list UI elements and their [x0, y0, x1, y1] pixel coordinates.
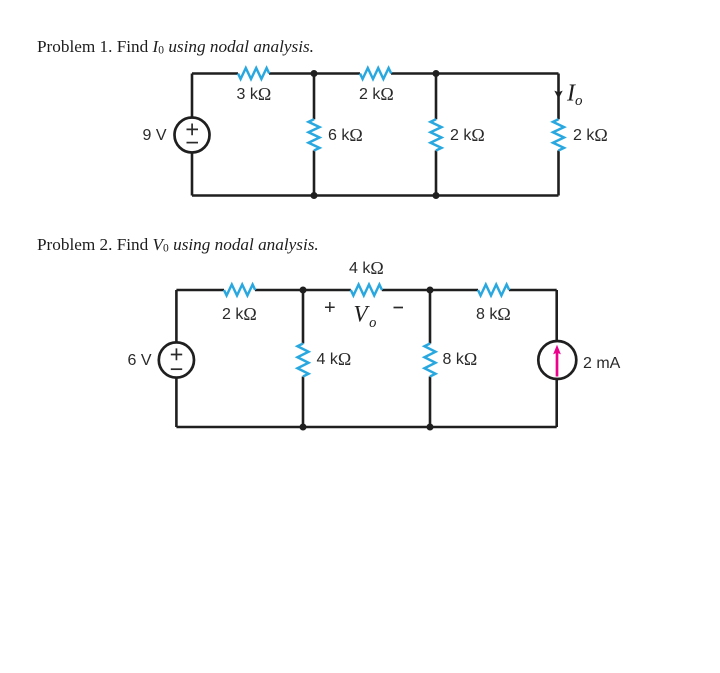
problem 1 title text — [37, 38, 314, 60]
svg-text:8 kΩ: 8 kΩ — [476, 304, 511, 324]
resistor R3 6k vertical zigzag — [309, 119, 320, 150]
wire vertical at node 4 above 8k — [429, 290, 432, 344]
svg-text:6 kΩ: 6 kΩ — [328, 125, 363, 145]
wire vertical at node 3 above 4k — [302, 290, 305, 344]
node 2 bottom junction dot — [433, 192, 440, 199]
wire vertical at node 3 below 4k — [302, 377, 305, 428]
resistor R1 3k horizontal zigzag — [238, 68, 269, 79]
resistor R8 8k horizontal zigzag — [478, 285, 509, 296]
svg-text:4 kΩ: 4 kΩ — [317, 349, 352, 369]
resistor R9 4k vertical zigzag — [298, 344, 309, 377]
svg-text:3 kΩ: 3 kΩ — [237, 84, 272, 104]
wire top between R8 and right corner P2 — [509, 289, 557, 292]
voltage source V2 plus sign — [171, 348, 182, 360]
node 1 bottom junction dot — [311, 192, 318, 199]
resistor R4 2k vertical zigzag — [431, 119, 442, 150]
voltage source V1 minus sign — [187, 142, 199, 144]
svg-text:Vo: Vo — [354, 302, 377, 332]
problem 2 title text — [37, 236, 319, 258]
wire right vertical below current source — [555, 378, 558, 427]
svg-text:2 mA: 2 mA — [583, 355, 621, 372]
resistor R10 8k vertical zigzag — [425, 344, 436, 377]
svg-text:8 kΩ: 8 kΩ — [443, 349, 478, 369]
svg-text:6 V: 6 V — [128, 352, 152, 369]
wire left vertical below 6V source — [175, 377, 178, 427]
wire right vertical above current source — [555, 290, 558, 341]
wire middle vertical at node 2 above 2k — [435, 74, 438, 120]
wire top-left segment (node A top rail) — [192, 72, 238, 75]
resistor R2 2k horizontal zigzag — [360, 68, 391, 79]
wire top-left segment P2 — [176, 289, 224, 292]
voltage source V2 minus sign — [171, 368, 182, 370]
wire top between R6 and node 3 — [255, 289, 351, 292]
wire middle vertical at node 1 below 6k — [313, 151, 316, 196]
wire bottom rail — [192, 194, 559, 197]
wire left vertical above 6V source — [175, 290, 178, 342]
svg-text:2 kΩ: 2 kΩ — [573, 125, 608, 145]
svg-text:4 kΩ: 4 kΩ — [349, 258, 384, 278]
resistor R7 4k horizontal zigzag — [351, 285, 382, 296]
current arrow I0 head — [554, 91, 562, 99]
wire left vertical above source — [191, 74, 194, 118]
svg-text:2 kΩ: 2 kΩ — [359, 84, 394, 104]
wire top between R1 and node 1 — [269, 72, 360, 75]
svg-text:9 V: 9 V — [143, 127, 167, 144]
current source I1 arrow up (magenta) — [556, 352, 559, 376]
wire bottom rail P2 — [176, 426, 556, 429]
node 3 top junction dot — [300, 287, 307, 294]
current source I1 2mA circle — [538, 341, 576, 379]
node 3 bottom junction dot — [300, 424, 307, 431]
svg-text:Io: Io — [566, 81, 583, 110]
label minus sign of Vo — [394, 307, 404, 309]
resistor R6 2k horizontal zigzag — [224, 285, 255, 296]
resistor R5 2k vertical zigzag (right branch) — [553, 119, 564, 150]
wire right vertical below 2k — [557, 151, 560, 196]
wire top between R7 and node 4 — [382, 289, 478, 292]
wire middle vertical at node 2 below 2k — [435, 151, 438, 196]
node 4 top junction dot — [427, 287, 434, 294]
voltage source V1 9V circle — [175, 118, 210, 153]
wire middle vertical at node 1 above 6k — [313, 74, 316, 120]
voltage source V1 plus sign — [187, 124, 199, 136]
svg-text:2 kΩ: 2 kΩ — [450, 125, 485, 145]
wire left vertical below source — [191, 153, 194, 196]
svg-text:+: + — [324, 297, 336, 319]
node 1 top junction dot — [311, 70, 318, 77]
wire right vertical above 2k — [557, 74, 560, 120]
svg-text:2 kΩ: 2 kΩ — [222, 304, 257, 324]
node 4 bottom junction dot — [427, 424, 434, 431]
node 2 top junction dot — [433, 70, 440, 77]
wire vertical at node 4 below 8k — [429, 377, 432, 428]
wire top between R2 and right corner — [391, 72, 559, 75]
voltage source V2 6V circle — [159, 342, 194, 377]
